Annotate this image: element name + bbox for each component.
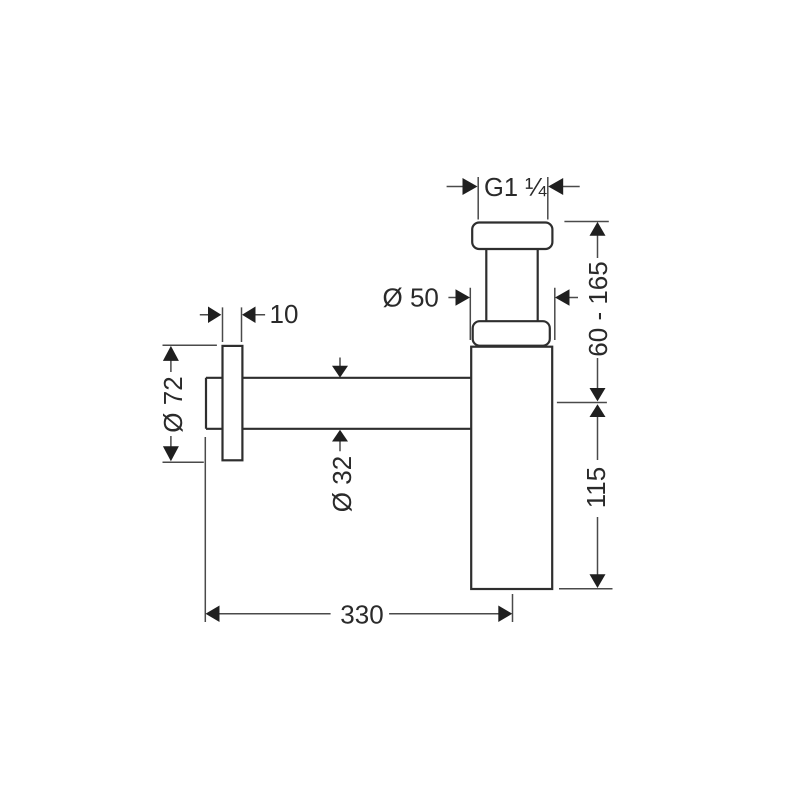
arrow 10 left	[208, 307, 221, 324]
svg-text:10: 10	[270, 299, 299, 329]
arrow O72 bottom	[163, 446, 179, 461]
svg-text:Ø 32: Ø 32	[327, 456, 357, 512]
dim 60-165 line	[597, 235, 599, 389]
dim 115 line	[597, 417, 599, 576]
dim G1 1/4 extension lines	[478, 177, 548, 220]
dim O32 line	[339, 358, 341, 452]
arrow O50 left	[456, 289, 471, 306]
dim 10 lines	[200, 314, 265, 316]
arrow 330 right	[498, 606, 512, 623]
arrow 330 left	[206, 606, 220, 623]
arrow O32 top	[332, 366, 348, 378]
arrow G1 right	[548, 178, 563, 195]
svg-text:60 - 165: 60 - 165	[583, 261, 613, 356]
svg-text:330: 330	[340, 600, 383, 630]
arrow 115 top	[590, 404, 606, 417]
dim O50 lines	[448, 297, 578, 299]
arrow 60-165 top	[590, 222, 606, 236]
dim G1 1/4 lines	[447, 186, 580, 188]
svg-text:Ø 72: Ø 72	[158, 376, 188, 432]
dim 10 extension lines	[223, 307, 242, 342]
dim 330 lines	[219, 613, 499, 615]
trap body	[471, 347, 552, 589]
horizontal outlet pipe	[206, 378, 471, 429]
top nut	[472, 223, 552, 250]
svg-text:115: 115	[581, 467, 611, 508]
dim 330 extension lines	[205, 437, 512, 622]
dim 60-165 dashes	[557, 222, 609, 403]
arrow 60-165 bottom	[590, 388, 606, 401]
arrow O50 right	[555, 289, 570, 306]
arrow 10 right	[242, 307, 256, 324]
dim O72 dashes	[163, 345, 217, 462]
lower nut	[473, 321, 550, 346]
arrow O32 bottom	[332, 430, 348, 442]
dim O50 extension lines	[470, 288, 555, 340]
inlet pipe	[486, 249, 537, 321]
arrow G1 left	[463, 178, 478, 195]
arrow O72 top	[163, 346, 179, 361]
dim 115 dash bottom	[559, 588, 613, 590]
svg-text:G1 ¼: G1 ¼	[484, 174, 547, 202]
arrow 115 bottom	[590, 574, 606, 588]
dim O72 line	[170, 360, 172, 447]
wall flange	[223, 346, 243, 460]
svg-text:Ø 50: Ø 50	[383, 283, 439, 313]
